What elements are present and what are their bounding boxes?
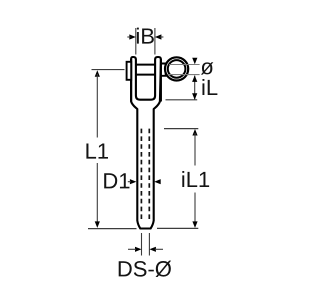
fork body with slot and swage shaft outline (131, 57, 161, 229)
bore hidden dashed line left (140, 129, 142, 222)
label iL (202, 79, 217, 95)
ring inner circle (168, 60, 186, 78)
dimension o-slash down arrow (192, 58, 197, 65)
dimension L1 line upper with up arrow (95, 70, 100, 77)
label DS-O (119, 261, 171, 277)
label D1 (104, 173, 129, 188)
fork outer right edge (160, 59, 162, 102)
fork outer left edge (reinforce straightness) (130, 59, 132, 102)
label L1 (86, 143, 108, 158)
dimension L1 line lower with down arrow (96, 163, 98, 224)
dimension DS left arrow (135, 247, 142, 252)
dimension L1 bottom extension line (88, 228, 137, 230)
dimension iL line with arrows (194, 76, 196, 100)
dimension DS right arrow (149, 247, 156, 252)
dimension DS extension line right (bore) (148, 233, 150, 256)
ring outer circle (165, 57, 188, 80)
pin neck between fork and ring (161, 64, 166, 76)
dimension iB left arrow (129, 34, 136, 39)
dimension iL bottom extension line (slot bottom) (166, 99, 198, 101)
dimension iL1 line lower with down arrow (194, 193, 196, 225)
label iB (137, 28, 154, 44)
label o-slash (201, 62, 213, 74)
dimension D1 left-pointing arrow at shaft right edge (154, 179, 161, 184)
dimension iB extension line left (135, 28, 137, 55)
dimension iL1 line upper with up arrow (192, 129, 197, 136)
dimension L1 top extension line (pin axis) (92, 69, 125, 71)
dimension iL1 bottom extension line (157, 227, 198, 229)
bore hidden dashed line right (148, 129, 150, 222)
dimension iB extension line right (154, 28, 156, 55)
clevis pin head (left flat end) (127, 62, 132, 80)
dimension iB right arrow (155, 34, 162, 39)
dimension DS extension line left (bore) (141, 233, 143, 256)
dimension D1 right-pointing arrow at shaft left edge (130, 179, 137, 184)
dimension iL1 top extension line (bore top) (164, 128, 198, 130)
dimension o-slash extension lines through ring (169, 64, 200, 66)
label iL1 (182, 171, 209, 187)
clevis pin shaft seen through slot: bottom edge (136, 74, 155, 76)
clevis pin shaft seen through slot: top edge (136, 64, 155, 66)
